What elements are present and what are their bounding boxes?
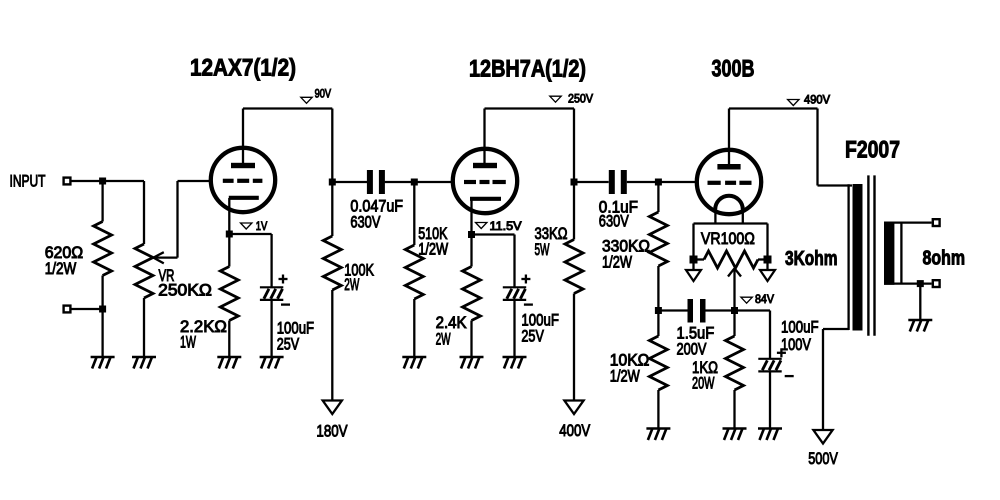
svg-text:1/2W: 1/2W — [602, 253, 632, 272]
svg-text:490V: 490V — [804, 95, 830, 107]
svg-text:180V: 180V — [316, 421, 348, 440]
svg-text:12AX7(1/2): 12AX7(1/2) — [190, 55, 296, 82]
svg-text:1/2W: 1/2W — [610, 367, 640, 386]
svg-text:1/2W: 1/2W — [45, 259, 77, 278]
svg-text:12BH7A(1/2): 12BH7A(1/2) — [469, 55, 586, 82]
svg-text:250V: 250V — [568, 93, 593, 105]
svg-text:25V: 25V — [521, 327, 544, 346]
svg-text:INPUT: INPUT — [10, 172, 46, 191]
svg-text:400V: 400V — [559, 421, 591, 440]
svg-text:100V: 100V — [781, 335, 811, 354]
svg-text:1/2W: 1/2W — [418, 240, 448, 259]
svg-text:500V: 500V — [808, 449, 838, 468]
svg-text:300B: 300B — [712, 56, 755, 83]
svg-text:250KΩ: 250KΩ — [158, 281, 212, 300]
svg-text:1W: 1W — [180, 333, 196, 352]
svg-text:90V: 90V — [315, 89, 332, 101]
svg-text:2W: 2W — [436, 330, 451, 349]
svg-text:84V: 84V — [755, 294, 774, 306]
svg-text:VR100Ω: VR100Ω — [701, 229, 755, 248]
svg-text:630V: 630V — [599, 212, 629, 231]
svg-text:11.5V: 11.5V — [490, 221, 522, 233]
svg-text:8ohm: 8ohm — [923, 248, 966, 270]
svg-text:25V: 25V — [277, 335, 300, 354]
svg-text:630V: 630V — [350, 213, 380, 232]
svg-text:100uF: 100uF — [781, 318, 819, 337]
svg-text:5W: 5W — [535, 240, 550, 259]
svg-text:2W: 2W — [344, 275, 359, 294]
svg-text:F2007: F2007 — [845, 137, 900, 164]
svg-text:20W: 20W — [692, 374, 715, 393]
svg-text:3Kohm: 3Kohm — [785, 248, 838, 270]
svg-text:1V: 1V — [256, 221, 268, 233]
svg-text:200V: 200V — [677, 340, 707, 359]
